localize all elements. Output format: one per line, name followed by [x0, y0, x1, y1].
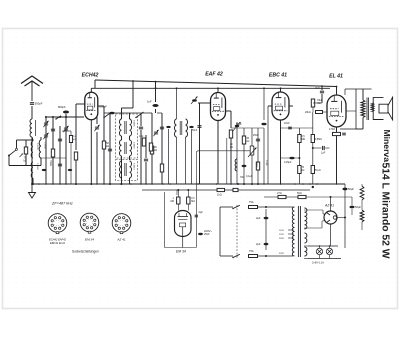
svg-text:0,0005: 0,0005	[133, 120, 135, 127]
capacitor mains cap a	[264, 217, 269, 220]
wire AVC line vertical	[195, 153, 197, 248]
wire lamp stem 3	[319, 255, 321, 259]
wire bus bridge	[176, 190, 178, 195]
svg-text:20kΩ: 20kΩ	[305, 111, 311, 114]
wire PT core a	[297, 206, 299, 257]
wire antenna feed	[31, 106, 33, 119]
capacitor EAF42 in cap	[198, 126, 202, 128]
svg-text:EM 34: EM 34	[85, 238, 94, 242]
svg-text:150V: 150V	[279, 238, 285, 240]
lamp pilot lamp 1	[316, 248, 322, 254]
wire EL41 grid wire2	[312, 107, 314, 112]
node EM34 va	[177, 189, 179, 191]
svg-text:0,25µF: 0,25µF	[284, 161, 292, 164]
wire R70k stem	[70, 131, 72, 136]
label socket1	[49, 238, 67, 246]
wire AZ41 anode wire4	[321, 221, 323, 228]
resistor R 75k	[24, 147, 27, 154]
svg-text:EM 34: EM 34	[176, 250, 186, 254]
capacitor res cap 50uF a	[342, 188, 347, 191]
inductor PT primary	[292, 207, 294, 256]
wire IFT3 sec bot	[129, 178, 131, 184]
capacitor c 0.25uF	[289, 157, 294, 160]
wire AZ41 top riser	[330, 197, 332, 211]
node y158 j	[298, 157, 300, 159]
wire lamp feed b	[304, 258, 308, 260]
resistor EM34 R 0.5M	[187, 197, 190, 204]
label 70k	[49, 160, 52, 166]
wire EM34 vert b	[187, 190, 189, 197]
capacitor gang cap c	[51, 129, 55, 131]
wire coupling wire y148	[313, 147, 322, 149]
wire osc coil3 down	[40, 158, 42, 166]
speaker terminals	[371, 104, 374, 112]
resistor EL41 stopper	[316, 111, 323, 114]
inductor osc coil 3	[39, 140, 41, 158]
wire mains bot lead2	[258, 255, 294, 257]
svg-text:110V: 110V	[279, 230, 284, 232]
wire EM34 R stem b	[187, 204, 189, 211]
node y117 d3	[59, 116, 61, 118]
svg-text:kΩ: kΩ	[230, 147, 233, 149]
wire v x313	[312, 112, 314, 184]
wire v x227	[226, 138, 228, 184]
wire IF can core b	[181, 121, 183, 135]
node j258	[257, 183, 259, 185]
node az41 node	[330, 196, 332, 198]
svg-text:50+Ω: 50+Ω	[315, 170, 321, 172]
inductor speaker field	[360, 210, 364, 222]
wire ECH42 anode to rail	[90, 88, 92, 92]
wire IFT1 prim top2	[122, 107, 134, 109]
resistor R 20k-b	[298, 166, 301, 174]
wire EM34 R stems	[177, 204, 179, 211]
svg-text:ECH42 EAF42: ECH42 EAF42	[49, 238, 67, 242]
resistor EL41 grid R	[311, 99, 314, 107]
tube EBC41	[269, 73, 289, 121]
wire res cap b wire2	[351, 209, 353, 215]
svg-text:70kΩ: 70kΩ	[49, 160, 52, 166]
label 27	[277, 192, 282, 195]
wire OT bot link	[356, 128, 363, 130]
svg-text:0,1µF: 0,1µF	[246, 175, 253, 178]
wire switch block bottom	[9, 165, 41, 167]
wire mid wire y113	[104, 112, 152, 114]
wire EAF42 bottom	[217, 121, 219, 185]
label T5A b	[249, 250, 254, 253]
node bus junction 198	[197, 183, 199, 185]
svg-text:25nF: 25nF	[253, 134, 259, 137]
tube AZ41	[324, 204, 337, 225]
node 1nF feed dot	[155, 87, 157, 89]
node bus junction 231	[230, 183, 232, 185]
wire 1nF fall	[155, 109, 157, 113]
inductor IF can secondary	[186, 119, 188, 137]
inductor IFT3 primary	[120, 161, 122, 178]
switch contact	[16, 148, 18, 150]
node bus junction 336.5	[336, 183, 338, 185]
tube ECH42	[82, 73, 99, 120]
speaker	[373, 97, 392, 120]
wire ground bus	[32, 183, 345, 185]
svg-text:MΩ: MΩ	[171, 201, 175, 203]
label 20kB	[305, 111, 311, 114]
svg-text:50µF: 50µF	[355, 205, 361, 209]
wire switch down	[8, 156, 10, 164]
label 25nF	[204, 233, 210, 236]
wire 7nF fall	[321, 94, 323, 103]
resistor fuse a	[249, 206, 258, 209]
trimmer capacitor padder 2	[43, 133, 48, 139]
wire osc coil stem	[32, 137, 33, 140]
wire ECH42 right pin	[98, 105, 104, 107]
svg-text:2µF: 2µF	[256, 216, 261, 220]
inductor IFT2 primary	[120, 140, 122, 156]
wire ECH42 grid leak down	[75, 160, 77, 184]
svg-text:220V: 220V	[279, 253, 285, 255]
capacitor c x244	[242, 165, 247, 167]
node bus junction 295	[294, 183, 296, 185]
wire decoupling fall	[151, 154, 153, 184]
capacitor gang cap a	[58, 139, 62, 141]
node y117 d2	[45, 116, 47, 118]
capacitor EL41 cathode C	[342, 133, 346, 135]
wire IFT cap fall	[140, 130, 142, 184]
wire mid link y158	[40, 157, 66, 159]
svg-text:AZ 41: AZ 41	[116, 238, 126, 242]
svg-text:EL 41: EL 41	[329, 74, 343, 80]
wire 1nF riser	[155, 82, 157, 102]
svg-text:50nF: 50nF	[236, 123, 242, 126]
node bus junction 60	[59, 183, 61, 185]
wire EL41 top	[336, 87, 338, 96]
inductor output transformer secondary	[371, 103, 374, 112]
wire output rail right	[345, 88, 372, 90]
wire decoupling riser	[151, 113, 153, 146]
node ECH42 gl gnd	[75, 183, 77, 185]
capacitor IFT1 tune cap	[139, 127, 143, 129]
wire HT rail top	[95, 80, 337, 87]
resistor R 0.5M-2	[311, 135, 314, 143]
wire ECH42 rail start riser	[94, 80, 96, 88]
resistor osc grid R 50k	[102, 141, 105, 149]
label 50nF	[236, 123, 242, 126]
capacitor coupling cap 1uF	[323, 146, 325, 150]
capacitor gang cap b	[58, 164, 62, 166]
wire EL41 bottom	[336, 127, 338, 184]
label 7nF	[315, 86, 320, 90]
wire EL41 grid pin	[323, 111, 328, 113]
wire EAF42 right pin	[225, 110, 231, 112]
node mains mid bot	[265, 255, 267, 257]
label 170	[329, 128, 335, 131]
svg-text:170Ω: 170Ω	[329, 128, 335, 131]
wire IFT1 riser	[132, 81, 134, 108]
wire wire y158	[281, 157, 300, 159]
node bus junction 152	[151, 183, 153, 185]
wire IFT3 core a	[124, 163, 126, 176]
svg-text:500pF: 500pF	[35, 102, 43, 106]
svg-text:0,0540: 0,0540	[44, 142, 46, 149]
wire h link y128b	[281, 127, 313, 129]
antenna	[21, 76, 43, 101]
wire EBC41 bottom	[280, 120, 282, 184]
wire mains top lead	[220, 206, 233, 208]
capacitor cap 800pF-2	[109, 112, 114, 115]
wire EAF42 left drop	[199, 103, 201, 184]
svg-text:1µF: 1µF	[321, 152, 326, 155]
capacitor cap 800pF	[63, 111, 69, 114]
AVC corner	[196, 151, 198, 153]
resistor R 70k grid	[69, 136, 72, 143]
wire EL41 right pin	[346, 110, 356, 112]
wire R75k top	[25, 140, 27, 147]
svg-text:125V: 125V	[279, 234, 285, 236]
wire grid feed wire	[45, 116, 84, 118]
wire AZ41 anode wire3	[304, 227, 322, 229]
svg-text:50nF: 50nF	[255, 162, 257, 168]
inductor IFT1 primary	[120, 119, 122, 136]
wire 7nF riser	[321, 86, 323, 90]
wire R70k stem2	[70, 143, 72, 185]
wire IF sec down	[185, 137, 187, 184]
wire h link y128	[231, 127, 264, 129]
node az41 rj	[344, 217, 346, 219]
node bus junction 91.5	[91, 183, 93, 185]
inductor field choke	[360, 186, 364, 200]
resistor R x258	[256, 162, 259, 170]
svg-text:MΩ: MΩ	[302, 139, 306, 141]
wire choke bot	[361, 222, 363, 230]
label 0.1uF	[246, 175, 253, 178]
svg-text:0,1µF: 0,1µF	[265, 160, 267, 167]
switch arrow	[20, 154, 24, 158]
node y117 d4	[65, 116, 67, 118]
label 50uF a	[348, 187, 354, 191]
wire IF can core a	[179, 121, 181, 135]
svg-text:7nF: 7nF	[315, 86, 320, 90]
wire AZ41 right link	[337, 217, 345, 219]
capacitor det cap	[192, 99, 197, 101]
wire choke top	[361, 184, 363, 186]
capacitor IF can cap right	[189, 126, 193, 128]
wire IFT1 trim wire2	[96, 132, 98, 184]
label coil osc1	[133, 120, 135, 127]
wire mains mid vert	[265, 209, 267, 250]
wire IFT2 cap fall	[145, 162, 147, 184]
wire lamp rail bot	[308, 258, 341, 260]
wire AZ41 anode lead	[323, 213, 325, 216]
label 10n	[284, 122, 290, 125]
node EAF42 top dot	[217, 87, 219, 89]
resistor R 50	[298, 195, 306, 198]
label 1k3	[139, 135, 144, 138]
node EM34 vb	[187, 189, 189, 191]
node bus extra j	[312, 186, 314, 188]
resistor ECH42 grid leak	[74, 152, 77, 160]
svg-text:0,5MΩ: 0,5MΩ	[315, 139, 322, 141]
wire mains top lead2	[258, 206, 294, 208]
node rail junction x133	[132, 80, 134, 82]
node bus junction 141	[140, 183, 142, 185]
wire osc coil3 top	[40, 137, 42, 140]
svg-text:AZ 41: AZ 41	[324, 204, 334, 208]
node j244	[243, 183, 245, 185]
svg-text:kΩ: kΩ	[106, 144, 109, 148]
node rail junction x336.5	[336, 86, 338, 88]
resistor EM34 R 1M	[177, 197, 180, 204]
node bus junction 131	[130, 183, 132, 185]
node bus junction 53	[52, 183, 54, 185]
wire ECH42 anode feed	[91, 87, 330, 89]
ground main ground	[29, 184, 36, 198]
tube EM34	[175, 211, 192, 254]
node bus junction 76	[75, 183, 77, 185]
wire AZ41 anode wire	[304, 209, 323, 211]
wire OT core a	[366, 98, 368, 121]
inductor det choke	[235, 159, 237, 171]
wire OT prim top	[362, 89, 364, 100]
capacitor c left a	[42, 169, 46, 171]
wire x162 drop	[161, 113, 163, 184]
trimmer capacitor IFT1 trim 1	[94, 125, 99, 131]
label 025	[284, 161, 292, 164]
node rail2 d2	[280, 87, 282, 89]
wire switch wire y117	[157, 112, 162, 114]
label 05M3	[315, 139, 322, 141]
label mains label	[204, 229, 213, 233]
svg-text:kΩ: kΩ	[302, 170, 305, 172]
wire choke link	[361, 200, 363, 210]
label 1uFc	[321, 152, 326, 155]
wire coupling wire y148b	[325, 147, 329, 149]
node rail junction x155.5	[155, 81, 157, 83]
svg-text:2×6V 0,1A: 2×6V 0,1A	[312, 262, 324, 265]
svg-text:27Ω: 27Ω	[277, 192, 282, 195]
label 2uF a	[256, 216, 261, 220]
inductor PT HT secondary	[305, 208, 307, 229]
wire IFT1 trim wire	[96, 117, 98, 124]
label 20k4	[230, 144, 233, 149]
svg-text:0,0060: 0,0060	[133, 142, 135, 149]
inductor IFT3 secondary	[130, 161, 132, 178]
node jog dot	[176, 87, 178, 89]
label IF freq note	[51, 202, 73, 206]
node bus junction 146	[145, 183, 147, 185]
resistor dropper 1k	[217, 188, 225, 191]
node j238	[237, 183, 239, 185]
wire lamp stem 2	[329, 246, 331, 248]
wire ECH42 right pin2	[103, 106, 105, 110]
wire R75k bot	[25, 154, 27, 166]
label 50k	[106, 141, 109, 148]
wire EAF42 left pin	[198, 102, 211, 104]
wire v x244	[243, 128, 245, 184]
wire EAF42 top	[217, 88, 219, 92]
band switch b	[135, 112, 143, 118]
wire psu right vert	[344, 184, 346, 248]
wire IFT2 core a	[124, 142, 126, 154]
wire OT core b	[367, 98, 369, 121]
node rail junction x322	[321, 85, 323, 87]
wire ECH42 left pin drop	[75, 110, 77, 150]
wire res cap b wire	[351, 197, 353, 205]
node mains mid top	[265, 206, 267, 208]
wire antenna coil core	[35, 120, 37, 136]
label coil1	[36, 143, 38, 150]
IF transformer 3 shield	[116, 160, 138, 181]
lamp pilot lamp 2	[326, 248, 332, 254]
wire IFT1 prim bot	[121, 136, 123, 140]
svg-text:50µF: 50µF	[348, 187, 354, 191]
svg-text:514 L Mirando 52 W: 514 L Mirando 52 W	[380, 163, 391, 259]
label 50nF4	[255, 162, 257, 168]
wire gang vertical 2	[52, 117, 54, 184]
label 20k1	[154, 146, 157, 152]
svg-text:2µF: 2µF	[256, 242, 261, 246]
node bus junction 39	[38, 183, 40, 185]
label 1k	[217, 193, 222, 197]
wire EL41 anode riser	[344, 89, 346, 95]
resistor R x151	[149, 143, 152, 151]
wire EAF42 right drop	[230, 111, 232, 128]
resistor decoupling 20k	[150, 146, 153, 154]
label 25nF2	[253, 134, 259, 137]
node osc coil gnd	[32, 183, 34, 185]
wire psu wire 197b	[286, 196, 298, 198]
svg-text:Sockelschaltungen: Sockelschaltungen	[72, 250, 99, 254]
label 05M	[302, 136, 306, 141]
wire IFT1 core b	[125, 121, 127, 134]
node ECH42 cathode gnd	[90, 183, 92, 185]
switch band switch a	[55, 116, 61, 120]
wire IFT1 sec bot	[129, 136, 131, 140]
wire v x238	[236, 122, 238, 184]
resistor R x244	[242, 136, 245, 144]
capacitor EM34 cap 2u	[195, 215, 198, 217]
wire lamp feed	[304, 245, 308, 247]
node bus junction 317	[316, 183, 318, 185]
trimmer capacitor trim x66	[63, 126, 68, 132]
wire EBC41 left drop	[267, 106, 269, 184]
svg-text:T5A: T5A	[249, 250, 254, 253]
inductor IF can primary	[175, 119, 177, 137]
node bus junction 163	[162, 183, 164, 185]
wire IF prim down	[176, 137, 178, 184]
wire IFT cap riser	[140, 113, 142, 126]
wire second bus	[142, 189, 310, 191]
node bus junction 310	[309, 183, 311, 185]
wire IF cap left wire	[168, 129, 170, 184]
wire mains bot lead	[220, 255, 233, 257]
wire switch drop	[16, 140, 18, 148]
svg-text:800pF: 800pF	[58, 105, 66, 109]
label 1M	[171, 198, 175, 203]
wire ECH42 left pin2	[75, 104, 77, 110]
node band switch node	[52, 116, 54, 118]
inductor antenna coil	[30, 119, 32, 137]
wire EL41 grid wire	[313, 102, 322, 104]
label 70a	[240, 177, 245, 179]
inductor output transformer primary	[361, 100, 365, 118]
wire IFT1 sec top	[129, 113, 131, 119]
label T5A a	[249, 201, 254, 204]
label 2uF b	[256, 242, 261, 246]
IF transformer 1 shield	[116, 114, 138, 158]
wire diode load down	[230, 138, 232, 184]
svg-text:1kΩ: 1kΩ	[139, 135, 144, 138]
waveband switch lever	[8, 150, 16, 156]
